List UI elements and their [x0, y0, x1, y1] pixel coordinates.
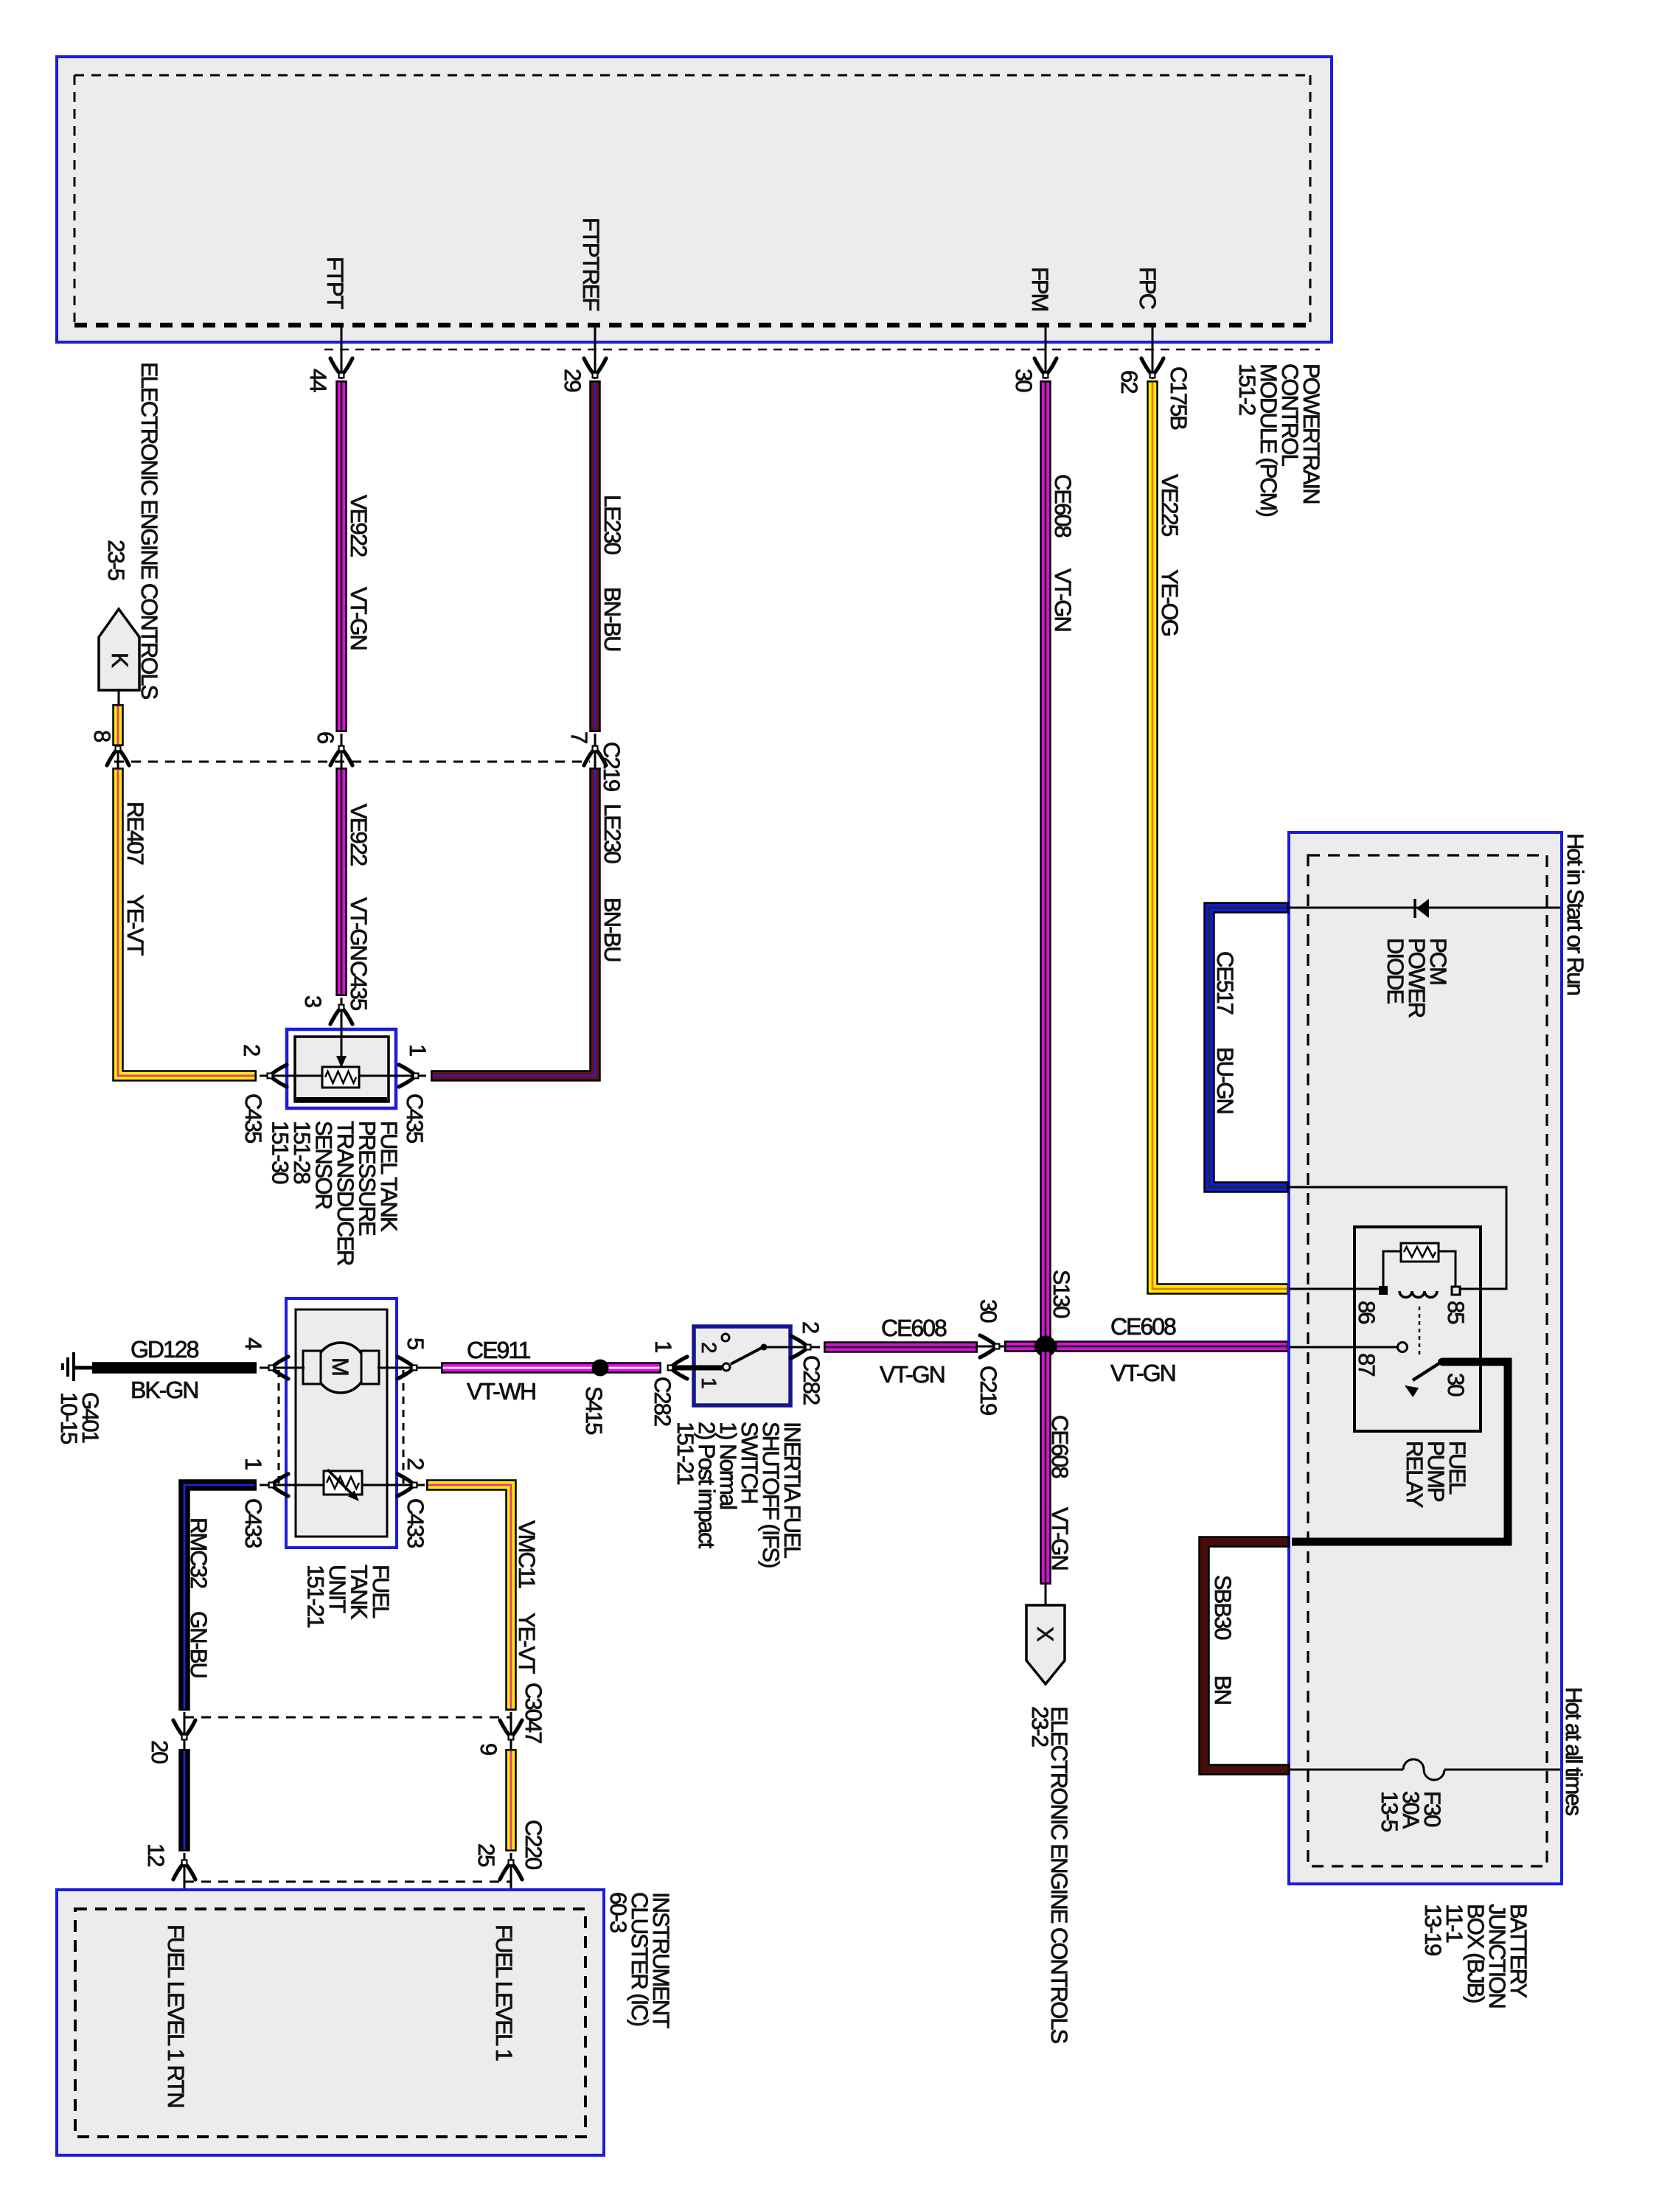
svg-text:FUEL LEVEL 1: FUEL LEVEL 1 — [491, 1924, 517, 2061]
svg-text:30: 30 — [1011, 369, 1037, 392]
svg-text:VE922: VE922 — [346, 804, 372, 866]
svg-text:C435: C435 — [402, 1093, 428, 1143]
svg-text:M: M — [327, 1357, 353, 1375]
svg-text:VT-WH: VT-WH — [467, 1378, 535, 1405]
svg-text:FUEL LEVEL 1 RTN: FUEL LEVEL 1 RTN — [163, 1924, 189, 2107]
svg-text:FTPTREF: FTPTREF — [578, 218, 604, 311]
svg-text:87: 87 — [1354, 1353, 1380, 1376]
svg-text:C219: C219 — [975, 1366, 1001, 1415]
svg-text:7: 7 — [566, 731, 592, 743]
svg-text:SBB30: SBB30 — [1210, 1575, 1236, 1640]
svg-text:RE407: RE407 — [122, 801, 148, 865]
svg-text:1: 1 — [650, 1340, 676, 1352]
svg-text:29: 29 — [560, 369, 585, 392]
svg-text:C433: C433 — [403, 1498, 428, 1548]
svg-text:30: 30 — [975, 1299, 1001, 1323]
svg-text:DIODE: DIODE — [1382, 938, 1408, 1004]
svg-text:25: 25 — [473, 1843, 499, 1866]
svg-text:5: 5 — [403, 1338, 428, 1349]
svg-text:151-21: 151-21 — [672, 1422, 698, 1484]
svg-text:85: 85 — [1443, 1301, 1469, 1324]
svg-text:FPC: FPC — [1135, 267, 1161, 310]
svg-text:RELAY: RELAY — [1402, 1441, 1427, 1508]
svg-text:RMC32: RMC32 — [186, 1517, 212, 1588]
svg-text:LE230: LE230 — [599, 804, 625, 863]
svg-text:C435: C435 — [346, 961, 372, 1010]
svg-text:FTPT: FTPT — [322, 257, 348, 310]
svg-text:151-30: 151-30 — [268, 1121, 293, 1184]
svg-text:8: 8 — [89, 730, 115, 742]
svg-text:Hot in Start or Run: Hot in Start or Run — [1562, 833, 1588, 995]
svg-text:1: 1 — [240, 1458, 266, 1470]
svg-text:10-15: 10-15 — [56, 1392, 82, 1444]
svg-text:4: 4 — [240, 1338, 266, 1350]
svg-text:CE608: CE608 — [881, 1315, 947, 1341]
svg-text:BN-BU: BN-BU — [599, 897, 625, 961]
svg-text:2: 2 — [698, 1342, 720, 1353]
svg-text:3: 3 — [300, 995, 326, 1007]
svg-text:CE911: CE911 — [467, 1337, 531, 1363]
svg-text:151-21: 151-21 — [303, 1565, 329, 1627]
svg-text:YE-VT: YE-VT — [514, 1613, 540, 1674]
svg-text:2: 2 — [403, 1458, 428, 1470]
svg-text:LE230: LE230 — [599, 495, 625, 554]
svg-text:BN-BU: BN-BU — [599, 587, 625, 650]
svg-text:C435: C435 — [240, 1093, 266, 1143]
svg-text:60-3: 60-3 — [605, 1892, 631, 1933]
svg-text:1: 1 — [698, 1377, 720, 1388]
svg-text:86: 86 — [1354, 1301, 1380, 1324]
svg-text:VT-GN: VT-GN — [346, 897, 372, 960]
svg-text:20: 20 — [147, 1740, 173, 1764]
svg-text:2: 2 — [798, 1321, 824, 1333]
svg-text:VT-GN: VT-GN — [880, 1361, 945, 1388]
svg-text:BK-GN: BK-GN — [131, 1377, 198, 1403]
svg-text:C433: C433 — [240, 1498, 266, 1548]
svg-text:VE225: VE225 — [1157, 474, 1183, 536]
svg-text:C220: C220 — [521, 1820, 546, 1870]
svg-text:ELECTRONIC ENGINE CONTROLS: ELECTRONIC ENGINE CONTROLS — [1046, 1706, 1072, 2043]
svg-text:9: 9 — [476, 1743, 501, 1755]
svg-text:BN: BN — [1210, 1675, 1236, 1704]
svg-text:C282: C282 — [650, 1377, 675, 1426]
svg-text:CE608: CE608 — [1110, 1313, 1176, 1340]
svg-text:VE922: VE922 — [346, 495, 372, 557]
svg-text:1: 1 — [405, 1044, 431, 1056]
svg-text:Hot at all times: Hot at all times — [1561, 1687, 1587, 1816]
svg-text:23-5: 23-5 — [103, 540, 129, 580]
svg-text:CE608: CE608 — [1050, 474, 1076, 538]
svg-text:62: 62 — [1116, 370, 1142, 393]
svg-text:44: 44 — [305, 369, 331, 392]
svg-text:12: 12 — [143, 1843, 169, 1866]
svg-text:VT-GN: VT-GN — [346, 587, 372, 650]
svg-text:S415: S415 — [581, 1386, 607, 1434]
svg-text:VT-GN: VT-GN — [1050, 568, 1076, 631]
svg-text:13-5: 13-5 — [1377, 1791, 1402, 1832]
svg-text:K: K — [107, 653, 133, 668]
svg-text:CE517: CE517 — [1212, 951, 1238, 1015]
svg-text:CE608: CE608 — [1047, 1415, 1073, 1478]
svg-text:C219: C219 — [599, 742, 625, 791]
svg-text:C3047: C3047 — [521, 1683, 546, 1743]
svg-text:23-2: 23-2 — [1027, 1706, 1053, 1747]
svg-text:YE-OG: YE-OG — [1157, 569, 1183, 636]
svg-text:VT-GN: VT-GN — [1110, 1360, 1175, 1386]
svg-text:YE-VT: YE-VT — [122, 894, 148, 956]
svg-text:X: X — [1032, 1627, 1058, 1642]
svg-text:VT-GN: VT-GN — [1047, 1507, 1073, 1570]
svg-text:C282: C282 — [799, 1355, 824, 1405]
svg-text:6: 6 — [313, 731, 338, 743]
svg-text:FPM: FPM — [1027, 267, 1053, 311]
svg-text:S130: S130 — [1048, 1270, 1074, 1318]
svg-text:13-19: 13-19 — [1420, 1904, 1446, 1955]
svg-text:GD128: GD128 — [131, 1336, 199, 1363]
svg-text:2: 2 — [239, 1044, 265, 1056]
svg-text:GN-BU: GN-BU — [186, 1611, 212, 1677]
svg-text:151-2: 151-2 — [1234, 364, 1260, 415]
svg-text:30: 30 — [1443, 1373, 1469, 1397]
svg-text:C175B: C175B — [1166, 366, 1192, 430]
svg-text:BU-GN: BU-GN — [1212, 1047, 1238, 1113]
svg-text:VMC11: VMC11 — [514, 1520, 540, 1588]
